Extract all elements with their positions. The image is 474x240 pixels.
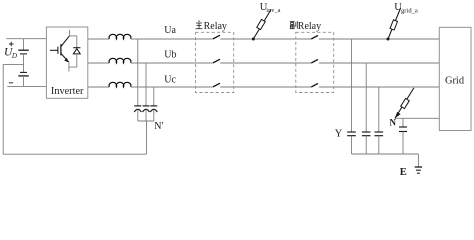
wire phase c to grid bbox=[319, 86, 439, 88]
wire phase a to main relay bbox=[131, 38, 213, 40]
switch S2a (aux relay) bbox=[311, 36, 318, 40]
transistor Q1 (IGBT) bbox=[50, 30, 77, 72]
wire neutral N to grid bbox=[395, 117, 439, 119]
svg-text:E: E bbox=[400, 167, 407, 178]
wire phase b to main relay bbox=[131, 62, 213, 64]
svg-text:N: N bbox=[390, 118, 397, 128]
svg-text:Inverter: Inverter bbox=[51, 86, 84, 97]
wire tap a to Y cap bbox=[351, 39, 353, 132]
inductor Lb bbox=[109, 58, 131, 63]
minus sign of U_D bbox=[9, 82, 13, 84]
svg-text:inv_a: inv_a bbox=[266, 7, 280, 14]
node DC+ terminal wire bbox=[6, 38, 46, 40]
inductor La bbox=[109, 34, 131, 39]
inductor Lc bbox=[109, 82, 131, 87]
wire midpoint left rail bbox=[2, 64, 4, 154]
wire tap b to Y cap bbox=[365, 63, 367, 132]
label Uc bbox=[164, 74, 176, 85]
svg-text:Ub: Ub bbox=[164, 50, 176, 61]
switch S2b (aux relay) bbox=[311, 60, 318, 64]
probe U_inv_a bbox=[253, 10, 271, 39]
plus sign of U_D bbox=[9, 42, 14, 47]
capacitor CYa bbox=[347, 132, 356, 154]
grid box bbox=[439, 27, 471, 130]
label N bbox=[390, 118, 397, 128]
ground E bbox=[415, 167, 422, 173]
capacitor CN bbox=[399, 118, 407, 154]
wire DC midpoint bbox=[3, 63, 23, 65]
wire node N' downlead bbox=[146, 121, 148, 154]
capacitor CYc bbox=[375, 132, 384, 154]
node DC- terminal wire bbox=[7, 85, 46, 87]
label Y bbox=[335, 128, 343, 139]
probe N (arrow) bbox=[395, 88, 414, 118]
wire phase c to aux relay bbox=[220, 86, 311, 88]
label Grid bbox=[445, 76, 465, 87]
capacitor C1 (upper DC-link) bbox=[18, 39, 28, 65]
node junction dot U_grid_a bbox=[387, 38, 390, 41]
switch S2c (aux relay) bbox=[311, 84, 318, 88]
label N' bbox=[154, 121, 163, 132]
switch S1a (main relay) bbox=[213, 35, 220, 39]
wire filter star bar bbox=[138, 120, 154, 122]
label main Relay (CJK zhu) bbox=[196, 20, 227, 32]
main relay dashed box bbox=[196, 32, 234, 92]
wire to earth bbox=[417, 154, 419, 167]
node junction dot U_inv_a bbox=[252, 38, 255, 41]
wire bottom return to N' bbox=[3, 153, 146, 155]
label E bbox=[400, 167, 407, 178]
wire phase b to aux relay bbox=[220, 62, 311, 64]
wire phase b from inverter bbox=[88, 62, 110, 64]
label Ub bbox=[164, 50, 176, 61]
label U_inv_a bbox=[260, 2, 281, 14]
wire tap c to filter cap bbox=[153, 87, 155, 106]
label Inverter bbox=[51, 86, 84, 97]
svg-text:D: D bbox=[11, 52, 17, 60]
wire phase a to grid bbox=[319, 38, 439, 40]
wire Y-cap common bar bbox=[352, 153, 419, 155]
svg-text:Relay: Relay bbox=[204, 21, 227, 32]
aux relay dashed box bbox=[296, 32, 334, 92]
label Ua bbox=[164, 25, 176, 36]
switch S1c (main relay) bbox=[213, 83, 220, 87]
wire tap c to Y cap bbox=[378, 87, 380, 132]
svg-text:Uc: Uc bbox=[164, 74, 176, 85]
label aux Relay (CJK fu) bbox=[290, 21, 321, 32]
capacitor Cfb (filter) bbox=[143, 106, 150, 121]
switch S1b (main relay) bbox=[213, 59, 220, 63]
svg-text:Y: Y bbox=[335, 128, 343, 139]
wire phase a from inverter bbox=[88, 38, 110, 40]
capacitor Cfc (filter) bbox=[150, 106, 157, 121]
wire tap a to filter cap bbox=[137, 39, 139, 106]
svg-text:grid_a: grid_a bbox=[401, 7, 418, 14]
svg-text:Relay: Relay bbox=[298, 21, 321, 32]
label U_D bbox=[4, 46, 17, 60]
svg-text:Ua: Ua bbox=[164, 25, 176, 36]
svg-text:Grid: Grid bbox=[445, 76, 465, 87]
probe U_grid_a bbox=[388, 8, 401, 39]
wire phase a to aux relay bbox=[220, 38, 311, 40]
wire tap b to filter cap bbox=[145, 63, 147, 106]
wire phase c from inverter bbox=[88, 86, 110, 88]
capacitor CYb bbox=[362, 132, 371, 154]
wire phase b to grid bbox=[319, 62, 439, 64]
capacitor Cfa (filter) bbox=[134, 106, 141, 121]
diode D1 (freewheel) bbox=[73, 36, 80, 67]
capacitor C2 (lower DC-link) bbox=[18, 64, 28, 86]
label U_grid_a bbox=[394, 2, 418, 14]
wire phase c to main relay bbox=[131, 86, 213, 88]
inverter box U1 bbox=[46, 27, 87, 98]
svg-text:N′: N′ bbox=[154, 121, 163, 132]
